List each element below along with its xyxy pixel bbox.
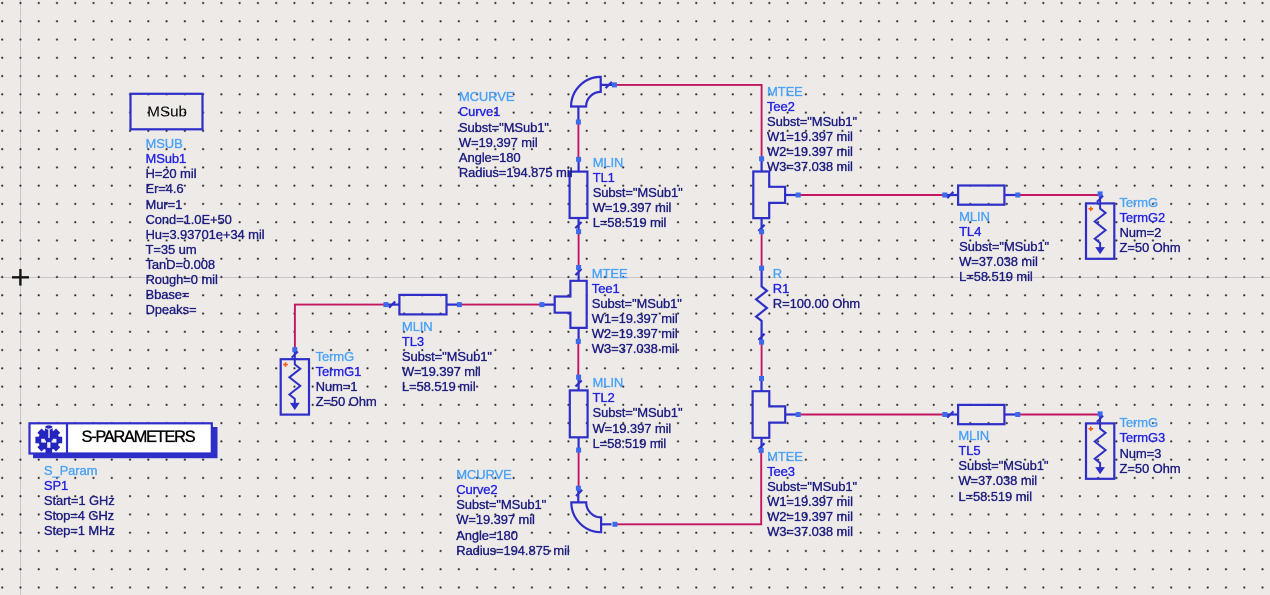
- tee junction Tee3: [753, 379, 799, 451]
- pin Tee2 p2: [796, 193, 801, 198]
- resistor R1: [756, 268, 767, 342]
- transmission line TL2 labels: [593, 375, 683, 450]
- transmission line TL5: [945, 405, 1018, 424]
- terminal TermG2: [1086, 191, 1114, 258]
- pin TL4 p2: [1015, 193, 1020, 198]
- pin Tee1 p2: [576, 265, 581, 270]
- resistor R1 labels: [773, 266, 860, 311]
- simulation gear icon: [30, 421, 67, 458]
- wire Tee2 to TL4: [798, 194, 945, 196]
- pin R1 p1: [759, 266, 764, 271]
- terminal TermG3 labels: [1120, 415, 1181, 475]
- substrate box MSub: [131, 94, 203, 130]
- pin Tee2 p1: [759, 156, 764, 161]
- pin Tee1 p3: [576, 339, 581, 344]
- mcurve Curve2 labels: [456, 467, 569, 558]
- wire TermG1 to TL3: [295, 305, 386, 350]
- pin TL2 p2: [576, 375, 581, 380]
- wire TL3 to Tee1: [459, 304, 542, 306]
- pin Curve1 p2: [612, 82, 617, 87]
- pin Curve2 p1: [576, 486, 581, 491]
- pin TL2 p1: [576, 448, 581, 453]
- pin TL4 p1: [942, 193, 947, 198]
- terminal TermG3: [1086, 411, 1114, 478]
- transmission line TL2: [570, 377, 588, 450]
- pin TL5 p2: [1015, 412, 1020, 417]
- tee junction Tee1: [542, 268, 587, 342]
- transmission line TL4: [945, 186, 1018, 205]
- transmission line TL5 labels: [958, 428, 1048, 503]
- S-parameters controller box: [30, 421, 218, 458]
- terminal TermG1 labels: [316, 349, 377, 409]
- tee junction Tee2: [753, 159, 798, 232]
- transmission line TL1: [570, 159, 588, 231]
- transmission line TL1 labels: [593, 155, 683, 230]
- pin Tee3 p2: [796, 412, 801, 417]
- wire Curve1 to TL1: [577, 122, 579, 159]
- wire Tee1 to TL2: [577, 341, 579, 377]
- pin TL5 p1: [942, 412, 947, 417]
- substrate label MSUB MSub1 parameters: [146, 136, 265, 317]
- pin TL3 p1: [383, 302, 388, 307]
- wire TL1 to Tee1: [578, 232, 580, 268]
- tee Tee2 labels: [767, 84, 857, 175]
- mcurve Curve1: [571, 77, 612, 120]
- wire TL2 to Curve2: [578, 450, 580, 488]
- wire R1 to Tee3: [761, 342, 763, 378]
- wire Tee3 to TL5: [798, 414, 945, 416]
- wire TL4 to TermG2: [1018, 194, 1100, 196]
- mcurve Curve1 labels: [459, 89, 572, 180]
- pin TL1 p1: [576, 229, 581, 234]
- terminal TermG1: [281, 347, 309, 414]
- pin Tee1 p1: [539, 302, 544, 307]
- S-parameters controller title: [82, 430, 195, 445]
- S-parameters SP1 labels: [44, 463, 115, 538]
- terminal TermG2 labels: [1120, 195, 1181, 255]
- mcurve Curve2: [571, 488, 611, 532]
- pin Curve1 p1: [576, 120, 581, 125]
- pin TL1 p2: [576, 157, 581, 162]
- origin cross: [12, 269, 29, 286]
- pin Tee2 p3: [759, 229, 764, 234]
- transmission line TL4 labels: [959, 209, 1049, 284]
- wire Curve2 to Tee3: [615, 450, 761, 524]
- transmission line TL3 labels: [402, 319, 492, 394]
- wire TL5 to TermG3: [1018, 414, 1100, 416]
- wire Curve1 to Tee2: [614, 85, 761, 159]
- tee Tee1 labels: [592, 266, 682, 357]
- tee Tee3 labels: [767, 449, 857, 540]
- pin TL3 p2: [457, 302, 462, 307]
- pin R1 p2: [759, 340, 764, 345]
- svg-text:MSub: MSub: [147, 104, 187, 121]
- wire Tee2 to R1: [761, 232, 763, 269]
- pin Tee3 p3: [759, 448, 764, 453]
- transmission line TL3: [386, 295, 460, 315]
- pin Curve2 p2: [612, 522, 617, 527]
- pin Tee3 p1: [759, 376, 764, 381]
